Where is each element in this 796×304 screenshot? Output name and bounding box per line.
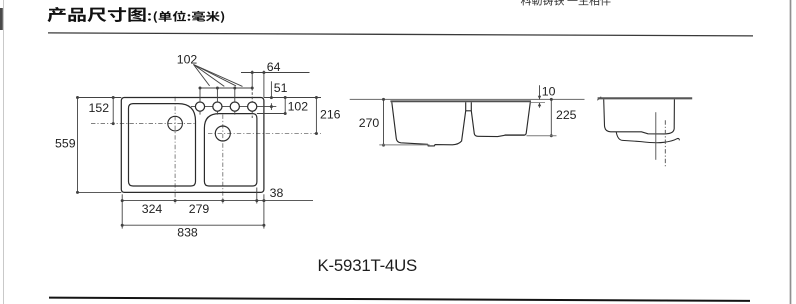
svg-text:279: 279 xyxy=(189,202,210,216)
svg-text:38: 38 xyxy=(270,186,284,200)
svg-text:102: 102 xyxy=(177,53,198,67)
svg-text:K-5931T-4US: K-5931T-4US xyxy=(318,256,417,275)
svg-text:102: 102 xyxy=(288,100,309,114)
svg-text:51: 51 xyxy=(274,81,288,95)
svg-text:324: 324 xyxy=(142,202,163,216)
svg-text:559: 559 xyxy=(55,136,76,150)
svg-text:838: 838 xyxy=(177,226,198,240)
svg-text:10: 10 xyxy=(542,85,556,99)
svg-text:225: 225 xyxy=(556,108,577,122)
svg-text:152: 152 xyxy=(89,101,110,115)
svg-text:64: 64 xyxy=(267,60,281,74)
svg-text:270: 270 xyxy=(359,116,380,130)
svg-text:216: 216 xyxy=(320,108,341,122)
